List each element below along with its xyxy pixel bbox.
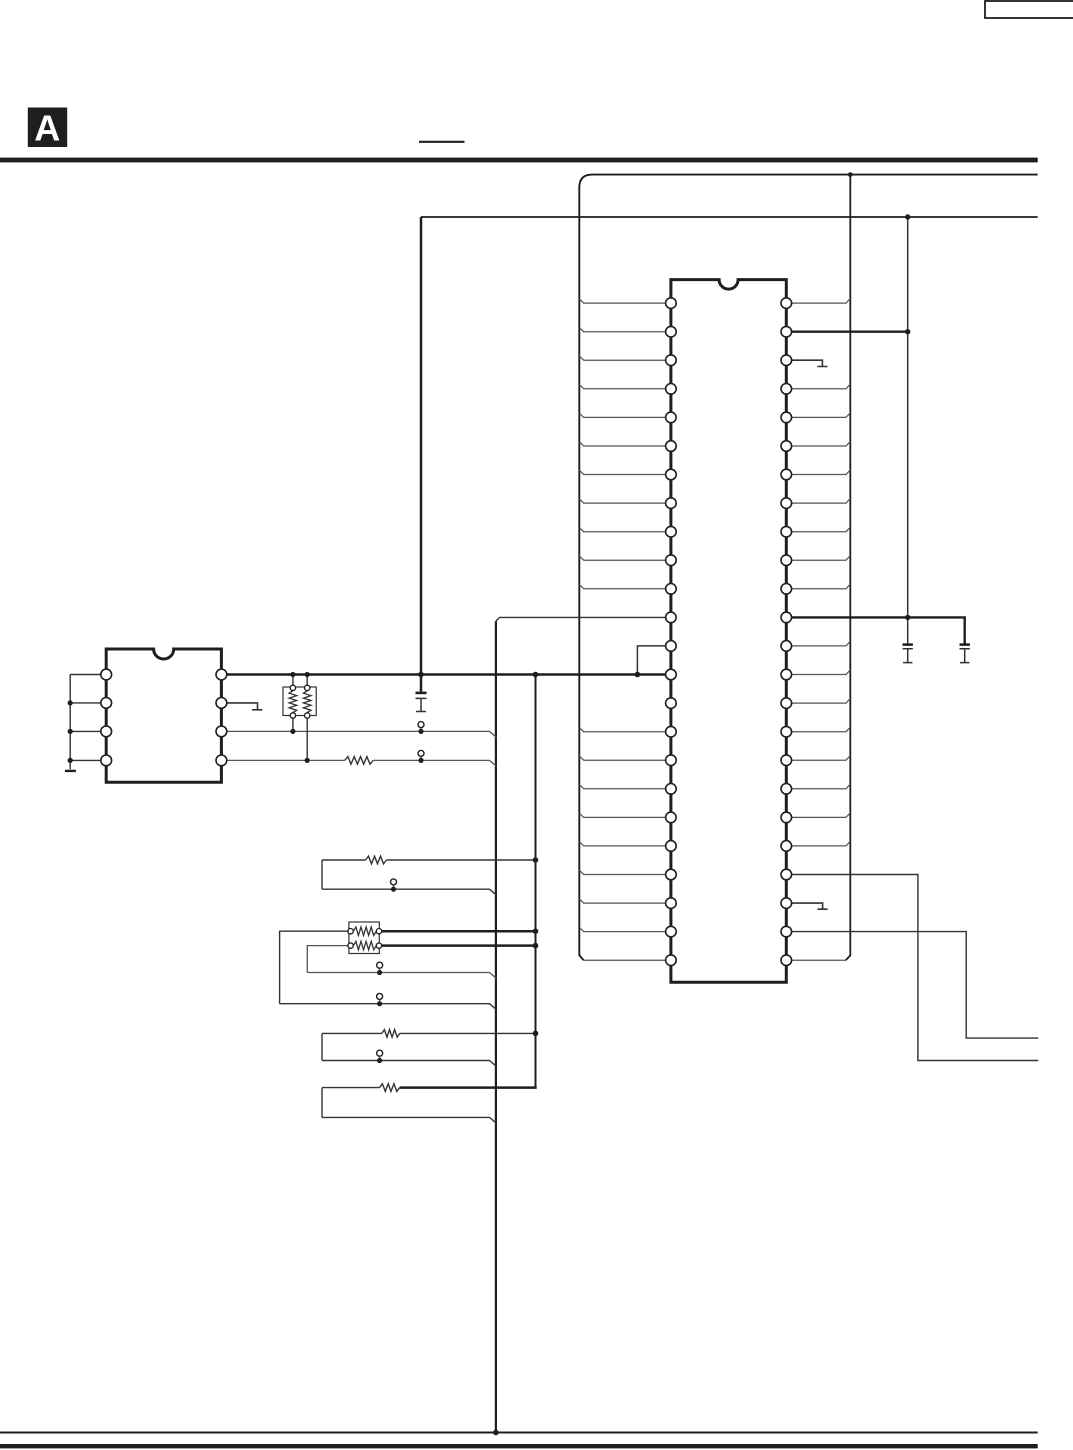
terminal circle RN1a bottom [290,713,295,718]
wire thick vertical x421 from net y217 down to VDD rail [420,217,423,675]
capacitor C3 [960,643,970,646]
resistor RN2b [353,941,376,949]
wire IC1 pin18R tap to right bus [786,784,850,789]
wire IC1 pin11R tap to right bus [786,584,850,589]
wire IC1 pin14R tap to right bus [786,670,850,675]
wire IC2 pin3 to left rail [70,730,106,732]
wire IC1 pin23R long net to right edge [786,932,1038,1039]
junction dot x907 on net y217 [905,214,910,219]
connector circle on net y731 below C1 [418,722,424,728]
wire IC1 pin6R tap to right bus [786,441,850,446]
bottom thick border rule [0,1444,1038,1448]
wire IC1 pin7L tap from left bus [579,470,671,474]
junction dot R3 output on bus x535 [533,1031,539,1037]
wire return net y1117 to bus x496 [322,1117,497,1123]
bus vertical x535 [535,675,537,1088]
wire IC1 pin18L tap from left bus [579,785,671,789]
terminal circle RN1b bottom [305,713,310,718]
junction dot connector net y1003 [377,1001,382,1006]
top border rule [0,158,1038,163]
wire thick IC1 pin12R to decoupling caps [786,617,964,643]
junction dot R1 output on bus x535 [533,857,539,863]
wire top horizontal net with rounded corner into left bus [579,175,1037,961]
junction dot RN1a on net y731 [290,729,295,734]
no-connect symbol IC2 pin6 [227,703,262,710]
wire IC1 pin4R tap to right bus [786,384,850,389]
bus vertical x496 down to bottom rule [495,621,497,1432]
wire IC2 pin4 to left rail [70,759,106,761]
no-connect symbol IC1 pin22R [786,903,827,909]
wire return net y1060 to bus x496 [322,1061,497,1067]
wire IC1 pin8R tap to right bus [786,499,850,504]
wire IC1 pin7R tap to right bus [786,470,850,475]
terminal circle RN1b top [305,685,310,690]
wire IC1 pin23L tap from left bus [579,927,671,931]
page corner box top-right [985,1,1073,18]
IC1 right pin circles 25-48 [781,298,792,966]
wire net y617 from bus x496 corner to IC1 pin12 [496,617,671,621]
junction dot RN1b on VDD rail [305,672,310,677]
connector circle on net y889 [391,879,397,885]
junction dot x907 pin2R wire [905,329,910,334]
IC1 left pin circles 1-24 [666,298,677,966]
junction dot VDD rail at bus x535 [533,672,539,678]
wire loopback left leg R3 [321,1033,323,1060]
junction dot right bus on net y174 [848,172,853,177]
wire RN2b return net y972 to bus x496 [307,973,496,979]
resistor R3 [382,1030,400,1038]
resistor R5 [345,757,374,765]
junction dot connector net y889 [391,887,396,892]
wire IC1 pin16L tap from left bus [579,727,671,731]
IC IC2 body (8-pin) [106,649,221,782]
junction dot left rail pin4 [68,758,73,763]
wire IC1 pin19R tap to right bus [786,813,850,818]
wire IC1 pin24L tap from left bus bottom [584,959,671,961]
wire RN2b input loop [307,946,348,973]
wire IC1 pin15R tap to right bus [786,699,850,704]
wire IC1 pin8L tap from left bus [579,499,671,503]
wire RN2a return net y1003 to bus x496 [280,1004,497,1010]
wire IC1 pin9R tap to right bus [786,527,850,532]
wire IC1 pin19L tap from left bus [579,813,671,817]
junction dot VDD rail at x421 [418,672,424,678]
terminal circle RN2b right [376,943,381,948]
wire RN1b top stub [306,675,308,687]
wire branch x637 to IC1 pin13 [637,646,671,675]
junction dot connector net y972 [377,970,382,975]
resistor R1 [366,856,387,864]
junction dot net y760 [418,758,423,763]
wire net from IC2 pin7 to bus x496 [227,731,497,737]
wire resistor R4 input [322,1087,380,1089]
resistor network RN2 box [349,922,379,954]
wire IC1 pin1L tap from left bus [579,299,671,303]
no-connect symbol IC1 pin3R [786,360,827,366]
terminal circle RN2b left [348,943,353,948]
junction dot C1 net y731 [418,729,423,734]
wire IC1 pin24R tap from right bus bottom [786,959,845,961]
wire net from IC2 pin8 through resistor R5 to bus x496 [227,760,497,766]
wire IC2 pin1 to left rail [70,674,106,676]
resistor network RN1 box [283,687,316,716]
junction dot RN2a output on bus x535 [533,928,539,934]
wire return net y889 to bus x496 [322,889,497,895]
wire RN1a bottom stub to net y731 [292,718,294,732]
wire IC1 pin10R tap to right bus [786,556,850,561]
wire IC1 pin3L tap from left bus [579,356,671,360]
capacitor C1 top lead [420,675,423,692]
terminal circle RN2a left [348,929,353,934]
wire IC1 pin5L tap from left bus [579,413,671,417]
wire resistor R4 output thick [400,1086,537,1089]
connector circle on net y1003 [377,993,383,999]
junction dot branch on VDD rail [635,672,641,678]
section label A badge [28,108,67,148]
wire thin horizontal net y217 [421,216,1038,218]
resistor RN1a [289,691,297,713]
wire IC1 pin11L tap from left bus [579,585,671,589]
capacitor C1 [416,692,427,695]
wire IC1 pin5R tap to right bus [786,413,850,418]
connector circle on net y1060 [377,1050,383,1056]
wire IC1 pin21R long net to right edge [786,875,1038,1061]
wire RN2a input loop [280,931,348,1004]
wire IC1 pin6L tap from left bus [579,442,671,446]
ground symbol [65,770,76,772]
junction dot RN2b output on bus x535 [533,943,539,949]
junction dot bus x496 on bottom rule [493,1430,499,1436]
junction dot RN1b on net y760 [305,758,310,763]
wire IC1 pin16R tap to right bus [786,727,850,732]
connector circle on net y972 [377,962,383,968]
wire RN2a output thick to bus x535 [380,930,536,933]
junction dot cap C2 on pin12R wire [905,615,910,620]
title underline [419,141,465,143]
wire IC1 pin21L tap from left bus [579,870,671,874]
wire IC1 pin4L tap from left bus [579,385,671,389]
bottom thin border rule [0,1432,1038,1434]
resistor RN2a [353,927,376,935]
terminal circle RN1a top [290,685,295,690]
wire IC2 pin2 to left rail [70,702,106,704]
wire RN1a top stub [292,675,294,687]
resistor R4 [380,1084,400,1092]
junction dot RN1a on VDD rail [290,672,295,677]
wire net through resistor R3 [322,1032,536,1034]
wire IC1 pin20R tap to right bus [786,841,850,846]
wire thick IC1 pin2R to vertical x907 [786,331,907,333]
svg-text:A: A [34,108,60,149]
wire loopback left leg R4 [321,1088,323,1118]
wire IC1 pin13R tap to right bus [786,641,850,646]
wire thick VDD rail y674 from IC2 pin1 to IC1 pin14 [221,673,671,676]
wire RN1b bottom stub to net y760 [306,718,308,761]
wire IC1 pin17L tap from left bus [579,756,671,760]
connector circle on net y760 [418,750,424,756]
junction dot left rail pin2 [68,700,73,705]
IC IC1 body (48-pin) [671,280,786,983]
wire IC1 pin1R tap to right bus [786,299,850,304]
wire RN2b output thick to bus x535 [380,944,536,947]
wire IC1 pin2L tap from left bus [579,327,671,331]
wire IC1 pin9L tap from left bus [579,527,671,531]
junction dot connector net y1060 [377,1058,382,1063]
capacitor C2 [903,643,913,646]
resistor RN1b [303,691,311,713]
wire IC1 pin22L tap from left bus [579,899,671,903]
junction dot left rail pin3 [68,729,73,734]
wire IC1 pin17R tap to right bus [786,756,850,761]
bus vertical right x850 with top and bottom taps [846,175,851,961]
terminal circle RN2a right [376,929,381,934]
wire IC1 pin20L tap from left bus [579,842,671,846]
wire vertical x907 from net y217 down to capacitor C2 [907,217,909,644]
wire IC1 pin10L tap from left bus [579,556,671,560]
IC2 pin circles 1-8 [101,669,227,766]
wire loopback left leg R1 [321,860,323,889]
wire net through resistor R1 [322,859,536,861]
wire left ground rail x70 [69,675,71,770]
